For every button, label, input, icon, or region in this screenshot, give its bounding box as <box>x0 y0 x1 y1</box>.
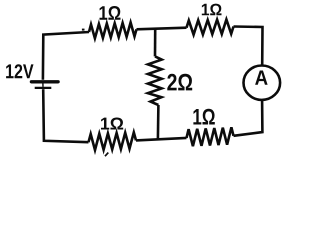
speck below R3 <box>105 153 108 157</box>
resistor R1 1-ohm top-left zigzag <box>89 23 137 39</box>
wire R3 to R4 through node B <box>136 138 187 141</box>
label battery value 12V <box>6 64 33 78</box>
wire node T down to R5 <box>154 29 157 56</box>
wire battery negative down left side to R3 <box>43 89 88 142</box>
resistor R4 1-ohm bottom-right zigzag <box>187 127 234 146</box>
battery B1 long plate <box>31 80 58 83</box>
label ammeter letter A <box>255 71 268 85</box>
resistor R5 2-ohm middle zigzag <box>148 56 162 105</box>
wire R2 to top-right corner down to ammeter <box>234 27 263 65</box>
label R3 value 1-ohm bottom-left <box>101 118 123 130</box>
label R2 value 1-ohm top-right <box>202 4 222 16</box>
wire R4 to bottom-right corner up to ammeter <box>234 101 263 136</box>
wire R5 down to node B <box>157 105 160 139</box>
resistor R3 1-ohm bottom-left zigzag <box>89 132 137 150</box>
battery B1 inner stub <box>42 83 44 87</box>
speck on top wire near R1 <box>82 29 85 31</box>
ammeter A1 circle <box>243 66 280 100</box>
wire R1 to R2 through node T <box>137 28 187 30</box>
battery B1 short plate <box>35 87 52 89</box>
label R4 value 1-ohm bottom-right <box>193 109 214 125</box>
resistor R2 1-ohm top-right zigzag <box>187 20 234 35</box>
wire battery positive up left side to R1 <box>43 32 89 80</box>
label R1 value 1-ohm top-left <box>100 6 121 20</box>
label R5 value 2-ohm middle <box>167 74 192 91</box>
